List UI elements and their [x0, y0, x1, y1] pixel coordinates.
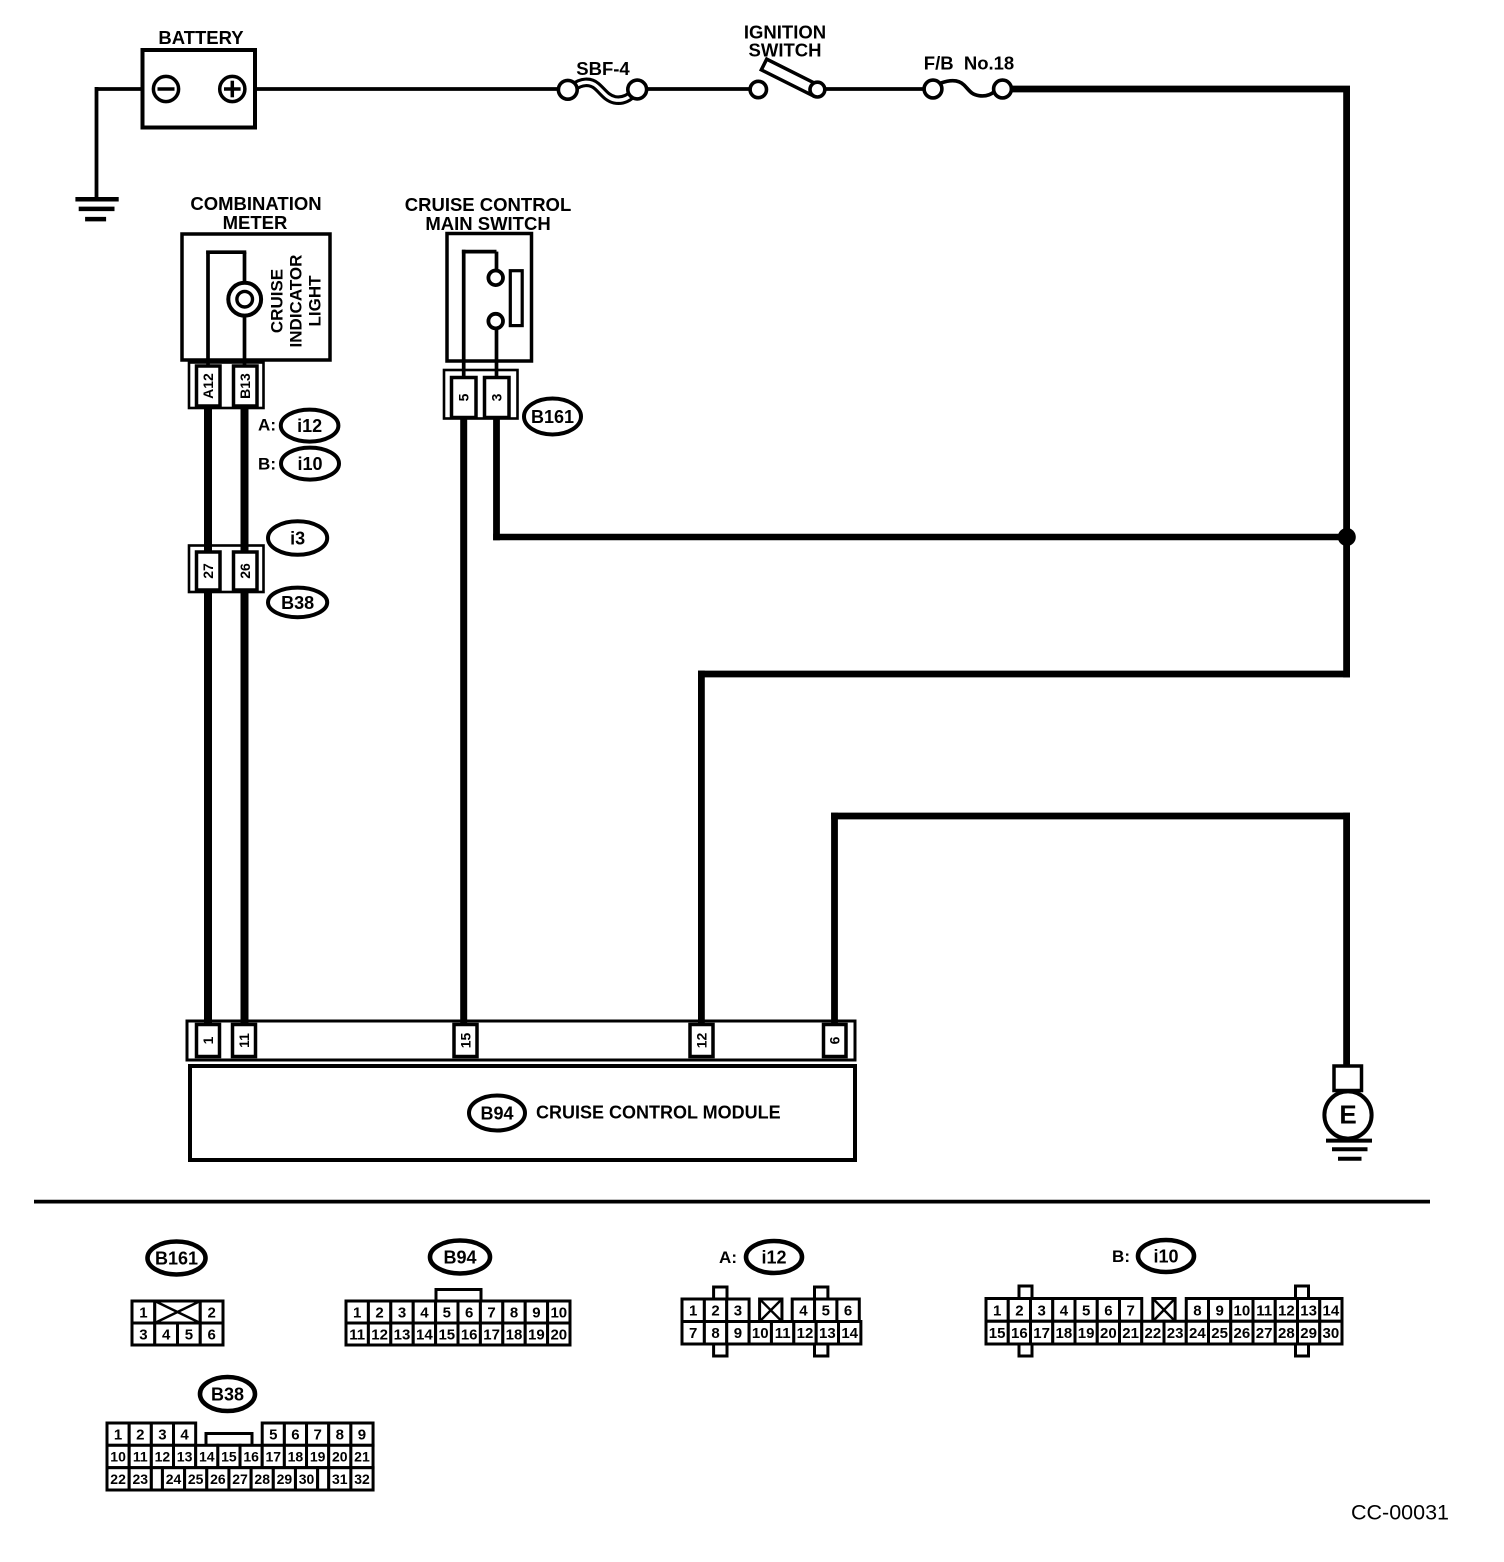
ground E chassis lines [1326, 1139, 1372, 1143]
wire F/B No.18 output thick feed to right [1010, 86, 1350, 93]
svg-text:21: 21 [354, 1448, 370, 1464]
svg-text:23: 23 [1167, 1325, 1184, 1342]
pinout B94 grid [436, 1290, 481, 1304]
ignition switch [761, 59, 818, 96]
svg-text:10: 10 [1234, 1302, 1251, 1319]
svg-text:12: 12 [1278, 1302, 1295, 1319]
svg-text:2: 2 [207, 1304, 215, 1321]
svg-text:1: 1 [114, 1427, 122, 1444]
svg-text:24: 24 [166, 1471, 182, 1487]
svg-text:22: 22 [110, 1471, 126, 1487]
wire ground drop down to ground E [1343, 813, 1350, 1068]
wire meter pin A12 down to connector 27 and module pin 1 [204, 404, 212, 1030]
svg-text:B161: B161 [531, 407, 574, 427]
svg-text:12: 12 [371, 1326, 388, 1343]
meter internal wire loop [206, 251, 210, 371]
svg-text:B94: B94 [443, 1247, 476, 1267]
svg-text:CC-00031: CC-00031 [1351, 1501, 1449, 1525]
switch contact upper [488, 271, 503, 286]
svg-text:32: 32 [354, 1471, 370, 1487]
svg-text:4: 4 [162, 1326, 171, 1343]
svg-text:CRUISE CONTROL MODULE: CRUISE CONTROL MODULE [536, 1102, 781, 1122]
svg-text:i12: i12 [297, 416, 322, 436]
svg-text:11: 11 [349, 1326, 365, 1343]
svg-text:7: 7 [487, 1304, 495, 1321]
svg-text:22: 22 [1145, 1325, 1162, 1342]
battery negative terminal [153, 76, 178, 101]
svg-text:27: 27 [200, 563, 216, 579]
svg-text:3: 3 [1037, 1302, 1045, 1319]
svg-text:26: 26 [210, 1471, 226, 1487]
svg-text:9: 9 [358, 1427, 366, 1444]
svg-text:27: 27 [1256, 1325, 1273, 1342]
module pin 12 [690, 1025, 713, 1057]
wire pin-6 net right at y=816 to ground drop [831, 813, 1350, 820]
svg-text:INDICATOR: INDICATOR [287, 255, 306, 348]
svg-text:2: 2 [1015, 1302, 1023, 1319]
svg-text:B38: B38 [211, 1384, 244, 1404]
svg-text:10: 10 [752, 1325, 769, 1342]
fuse F/B No.18 [941, 81, 995, 96]
svg-text:9: 9 [532, 1304, 540, 1321]
svg-text:11: 11 [775, 1325, 791, 1342]
svg-text:12: 12 [694, 1033, 710, 1049]
svg-text:B94: B94 [480, 1103, 513, 1123]
pinout i10 grid [1019, 1286, 1032, 1300]
svg-text:24: 24 [1189, 1325, 1206, 1342]
intermediate connector 27/26 outline [189, 546, 264, 593]
svg-text:3: 3 [734, 1303, 742, 1320]
harness connector name i3 [268, 521, 327, 555]
separator line [34, 1200, 1430, 1204]
wire feed corner left at y=674 [698, 671, 1350, 678]
wire main switch pin 5 down to module pin 15 [460, 410, 467, 1030]
svg-text:3: 3 [398, 1304, 406, 1321]
svg-text:11: 11 [1256, 1302, 1272, 1319]
svg-text:B:: B: [258, 455, 276, 474]
svg-text:11: 11 [133, 1448, 148, 1464]
svg-text:CRUISE CONTROL: CRUISE CONTROL [405, 194, 572, 215]
svg-text:7: 7 [689, 1325, 697, 1342]
module pin 6 [824, 1025, 847, 1057]
svg-text:i12: i12 [761, 1247, 786, 1267]
svg-text:17: 17 [1033, 1325, 1050, 1342]
svg-text:11: 11 [236, 1033, 252, 1048]
svg-text:E: E [1339, 1099, 1356, 1129]
svg-text:20: 20 [332, 1448, 348, 1464]
pinout B38 grid [107, 1423, 129, 1445]
svg-text:16: 16 [1011, 1325, 1028, 1342]
cruise control main switch box [447, 234, 532, 362]
svg-text:29: 29 [277, 1471, 293, 1487]
meter connector pin A12 [197, 366, 221, 406]
svg-text:6: 6 [827, 1036, 843, 1044]
svg-text:2: 2 [711, 1303, 719, 1320]
svg-text:9: 9 [734, 1325, 742, 1342]
connector name B161 [524, 399, 581, 435]
svg-text:27: 27 [232, 1471, 248, 1487]
meter connector pin B13 [234, 366, 258, 406]
svg-text:26: 26 [1234, 1325, 1251, 1342]
svg-text:26: 26 [237, 563, 253, 579]
module connector strip [187, 1021, 855, 1060]
connector pin 26 [234, 552, 258, 590]
svg-text:8: 8 [1193, 1302, 1201, 1319]
svg-text:16: 16 [461, 1326, 478, 1343]
svg-text:31: 31 [332, 1471, 348, 1487]
svg-text:5: 5 [456, 393, 472, 401]
svg-text:4: 4 [799, 1303, 808, 1320]
svg-text:BATTERY: BATTERY [158, 27, 244, 48]
svg-text:10: 10 [550, 1304, 567, 1321]
combination meter box [182, 234, 330, 360]
svg-text:SWITCH: SWITCH [749, 39, 822, 60]
wire SBF-4 to ignition switch [646, 87, 752, 91]
svg-text:12: 12 [155, 1448, 171, 1464]
svg-text:4: 4 [420, 1304, 429, 1321]
svg-text:A:: A: [258, 416, 276, 435]
svg-text:13: 13 [819, 1325, 836, 1342]
svg-text:7: 7 [313, 1427, 321, 1444]
svg-text:28: 28 [254, 1471, 270, 1487]
svg-text:B38: B38 [281, 593, 314, 613]
module pin 15 [454, 1025, 477, 1057]
svg-text:3: 3 [158, 1427, 166, 1444]
svg-text:19: 19 [1078, 1325, 1095, 1342]
svg-text:4: 4 [180, 1427, 189, 1444]
pinout i12 grid [714, 1287, 727, 1301]
module pin 1 [197, 1025, 220, 1057]
svg-text:1: 1 [139, 1304, 147, 1321]
svg-text:A12: A12 [200, 373, 216, 399]
svg-text:15: 15 [989, 1325, 1006, 1342]
svg-text:6: 6 [207, 1326, 215, 1343]
svg-text:i10: i10 [297, 454, 322, 474]
svg-text:17: 17 [265, 1448, 281, 1464]
switch internal wiring [462, 250, 466, 381]
svg-text:17: 17 [483, 1326, 500, 1343]
switch connector pin 3 [485, 378, 510, 418]
wire right vertical feed down to corner [1343, 86, 1350, 677]
svg-text:29: 29 [1300, 1325, 1317, 1342]
switch actuator bar [510, 271, 522, 326]
fusible link SBF-4 [574, 82, 634, 100]
svg-text:12: 12 [797, 1325, 814, 1342]
cruise control module box B94 [190, 1066, 855, 1160]
svg-text:25: 25 [1211, 1325, 1228, 1342]
svg-text:20: 20 [1100, 1325, 1117, 1342]
svg-text:CRUISE: CRUISE [268, 269, 287, 333]
svg-text:4: 4 [1060, 1302, 1069, 1319]
cruise indicator light bulb [228, 283, 261, 316]
chassis ground below battery [75, 197, 118, 202]
svg-text:30: 30 [1323, 1325, 1340, 1342]
junction node at feed tap [1338, 528, 1356, 546]
svg-text:19: 19 [528, 1326, 545, 1343]
switch connector pin 5 [452, 378, 477, 418]
svg-text:8: 8 [711, 1325, 719, 1342]
svg-text:15: 15 [438, 1326, 455, 1343]
svg-text:14: 14 [841, 1325, 858, 1342]
wire module pin 6 up [831, 813, 838, 1030]
svg-text:20: 20 [550, 1326, 567, 1343]
svg-text:7: 7 [1126, 1302, 1134, 1319]
wire feed down to module pin 12 [698, 671, 705, 1030]
module pin 11 [233, 1025, 256, 1057]
svg-text:B:: B: [1112, 1247, 1130, 1266]
svg-text:10: 10 [110, 1448, 126, 1464]
svg-text:25: 25 [188, 1471, 204, 1487]
connector name B38 [268, 588, 327, 618]
svg-text:18: 18 [1056, 1325, 1073, 1342]
svg-text:1: 1 [200, 1036, 216, 1044]
svg-text:9: 9 [1215, 1302, 1223, 1319]
wire main switch pin 3 down then right to junction [493, 410, 500, 540]
pinout B161 label [148, 1242, 206, 1275]
svg-text:30: 30 [299, 1471, 315, 1487]
svg-text:i3: i3 [290, 528, 305, 548]
svg-text:A:: A: [719, 1248, 737, 1267]
svg-text:F/B No.18: F/B No.18 [924, 53, 1014, 74]
svg-text:LIGHT: LIGHT [306, 275, 325, 327]
svg-text:8: 8 [336, 1427, 344, 1444]
svg-text:14: 14 [199, 1448, 215, 1464]
switch connector outline B161 [444, 370, 518, 419]
pinout B94 label [430, 1241, 490, 1274]
wire battery negative to chassis ground [97, 87, 145, 91]
svg-text:18: 18 [288, 1448, 304, 1464]
svg-text:16: 16 [243, 1448, 259, 1464]
svg-text:14: 14 [1323, 1302, 1340, 1319]
svg-text:1: 1 [689, 1303, 697, 1320]
svg-text:15: 15 [221, 1448, 237, 1464]
ground E terminal square [1334, 1066, 1362, 1091]
meter connector outline i12/i10 [189, 363, 264, 409]
wire battery positive to SBF-4 [253, 87, 560, 91]
svg-text:13: 13 [1300, 1302, 1317, 1319]
svg-text:2: 2 [375, 1304, 383, 1321]
svg-text:13: 13 [394, 1326, 411, 1343]
pinout B38 label [200, 1377, 255, 1411]
svg-text:2: 2 [136, 1427, 144, 1444]
svg-text:28: 28 [1278, 1325, 1295, 1342]
svg-text:6: 6 [465, 1304, 473, 1321]
svg-text:6: 6 [291, 1427, 299, 1444]
svg-text:8: 8 [510, 1304, 518, 1321]
pinout B161 grid [132, 1301, 155, 1323]
svg-text:21: 21 [1122, 1325, 1139, 1342]
svg-text:13: 13 [177, 1448, 193, 1464]
svg-text:MAIN SWITCH: MAIN SWITCH [425, 213, 550, 234]
svg-text:6: 6 [844, 1303, 852, 1320]
wire meter pin B13 down to connector 26 and module pin 11 [241, 404, 249, 1030]
svg-text:METER: METER [223, 212, 288, 233]
svg-text:18: 18 [506, 1326, 523, 1343]
svg-text:B161: B161 [155, 1248, 198, 1268]
svg-text:19: 19 [310, 1448, 326, 1464]
svg-text:5: 5 [443, 1304, 451, 1321]
svg-text:5: 5 [822, 1303, 830, 1320]
svg-text:3: 3 [139, 1326, 147, 1343]
svg-text:1: 1 [993, 1302, 1001, 1319]
svg-text:5: 5 [1082, 1302, 1090, 1319]
battery [143, 50, 256, 128]
svg-text:1: 1 [353, 1304, 361, 1321]
svg-text:B13: B13 [237, 373, 253, 399]
svg-text:15: 15 [458, 1033, 474, 1049]
connector pin 27 [197, 552, 221, 590]
wire ignition switch to F/B No.18 [823, 87, 926, 91]
svg-text:SBF-4: SBF-4 [576, 58, 630, 79]
ground E circle [1324, 1091, 1371, 1138]
battery positive terminal [220, 76, 245, 101]
svg-text:23: 23 [132, 1471, 148, 1487]
svg-text:COMBINATION: COMBINATION [190, 193, 321, 214]
svg-text:14: 14 [416, 1326, 433, 1343]
svg-text:5: 5 [269, 1427, 277, 1444]
switch contact lower [488, 314, 503, 329]
svg-text:i10: i10 [1153, 1246, 1178, 1266]
svg-text:3: 3 [489, 393, 505, 401]
svg-text:5: 5 [185, 1326, 193, 1343]
svg-text:6: 6 [1104, 1302, 1112, 1319]
